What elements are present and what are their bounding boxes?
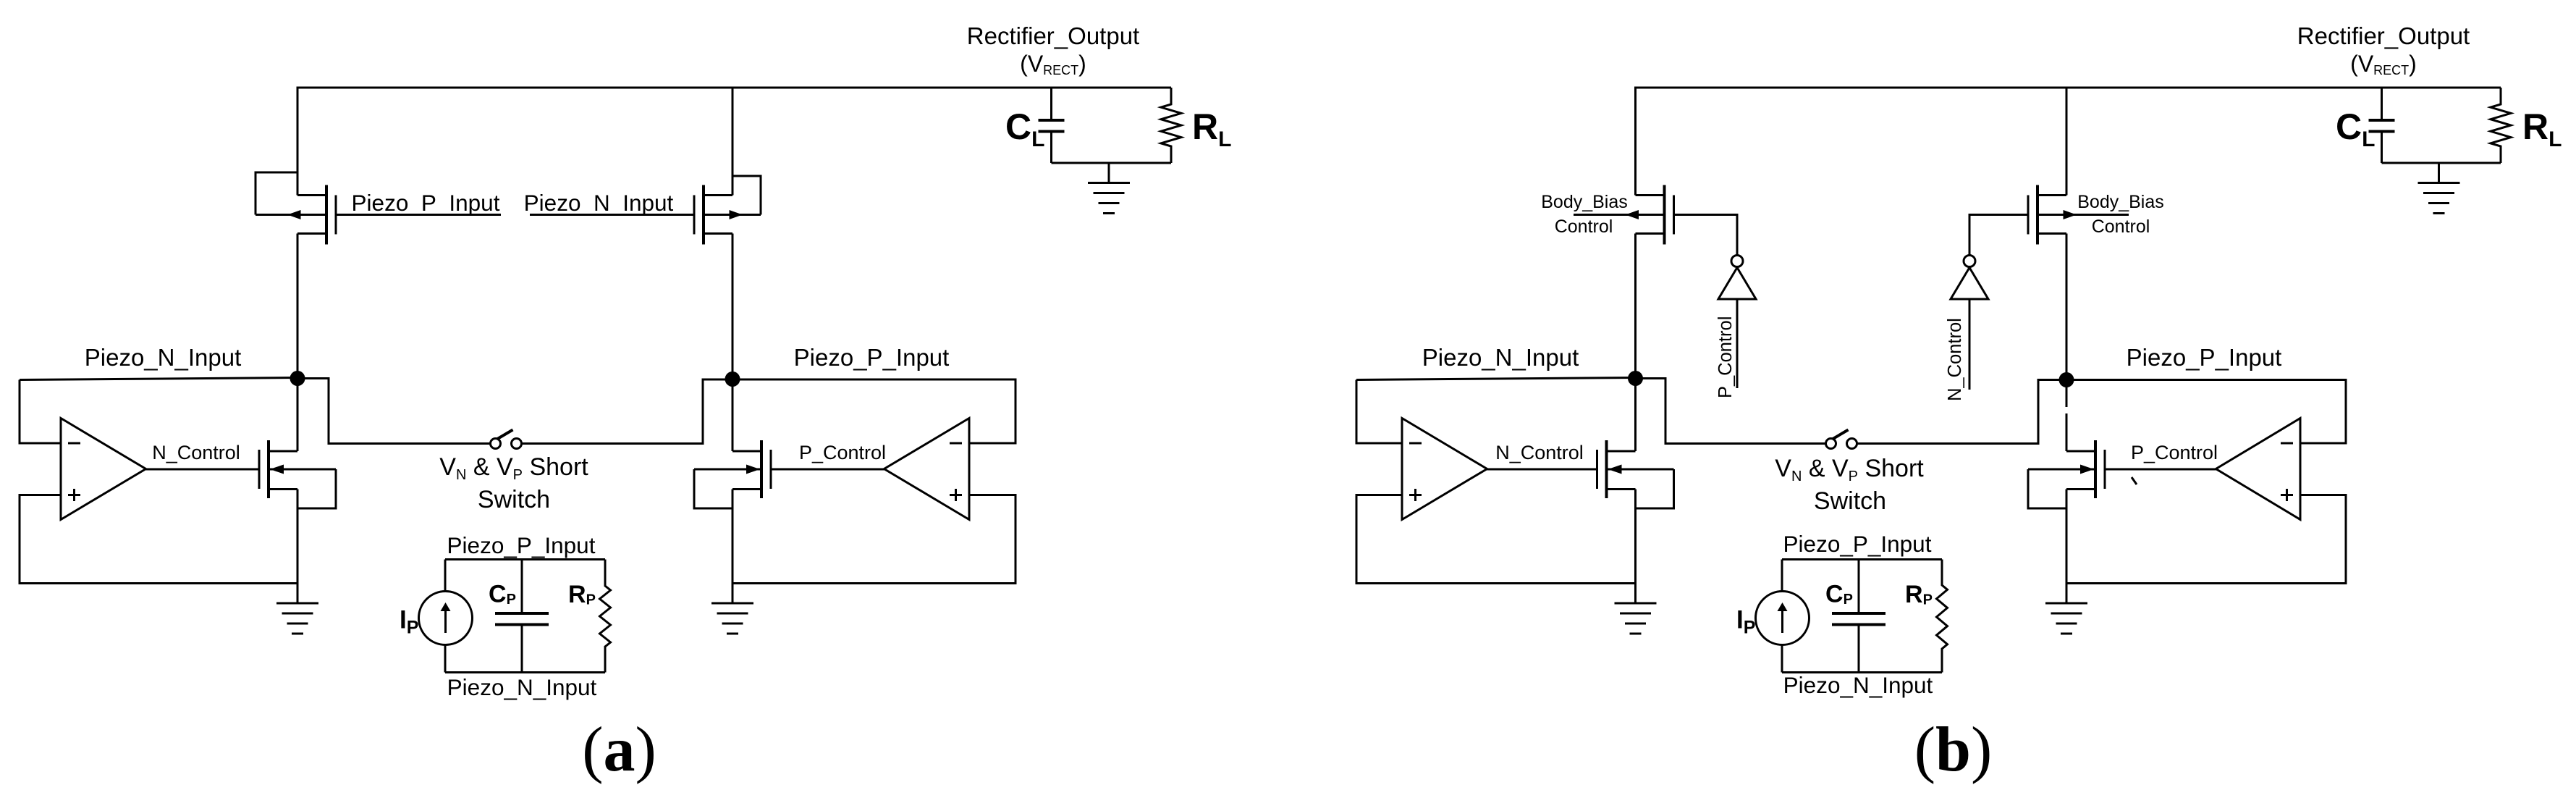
capacitor CL (a): [1039, 88, 1065, 163]
svg-text:Body_Bias: Body_Bias: [2077, 192, 2164, 212]
svg-text:N_Control: N_Control: [1495, 442, 1584, 463]
wire U3 inverting input wire (b): [1356, 380, 1402, 444]
op-amp comparator U3 (b): [1402, 419, 1487, 520]
svg-text:P_Control: P_Control: [2131, 442, 2218, 463]
svg-text:Control: Control: [2092, 217, 2150, 237]
wire U3 non-inverting input loop to bottom rail (b): [1356, 495, 1636, 584]
svg-text:(b): (b): [1914, 715, 1993, 785]
current source IP (b): [1756, 592, 1809, 645]
svg-text:Body_Bias: Body_Bias: [1541, 192, 1628, 212]
svg-text:Piezo_N_Input: Piezo_N_Input: [1422, 344, 1579, 371]
wire U1 output to M3 gate (a): [146, 469, 260, 471]
capacitor CL (b): [2369, 88, 2395, 163]
svg-text:Piezo_P_Input: Piezo_P_Input: [1783, 531, 1932, 557]
wire right branch vertical M6 source to node VP (b): [2066, 234, 2068, 379]
transistor M6 (top-right PMOS body-bias) (b): [2028, 185, 2129, 245]
wire node VP vertical to M8 drain (b): [2066, 413, 2068, 451]
wire node VN to short switch SW1 (a): [297, 379, 490, 444]
wire M3 body tie loop to source (a): [297, 469, 336, 508]
stray tick mark (b): [2132, 477, 2137, 484]
wire right branch vertical M2 source to node VP (a): [732, 234, 734, 379]
current source IP (a): [419, 592, 473, 645]
op-amp comparator U2 (a): [884, 419, 970, 520]
transistor M3 (left NMOS switch) (a): [259, 440, 336, 498]
node VN junction dot (a): [290, 371, 305, 386]
switch SW2 (VN-VP short) (b): [1826, 430, 1857, 449]
transistor M5 (top-left PMOS body-bias) (b): [1574, 185, 1674, 245]
wire U4 non-inverting input loop to bottom rail (b): [2066, 495, 2346, 584]
wire IP top lead (b): [1781, 560, 1783, 592]
resistor RL (b): [2491, 88, 2511, 163]
wire left branch vertical above M1 (a): [297, 88, 299, 196]
wire node VP vertical to M4 drain (a): [732, 379, 734, 452]
node VP junction dot (a): [725, 371, 740, 387]
svg-text:Piezo_N_Input: Piezo_N_Input: [447, 674, 597, 700]
svg-text:Piezo_N_Input: Piezo_N_Input: [85, 344, 241, 371]
resistor RP (a): [600, 560, 611, 673]
capacitor CP (a): [495, 560, 549, 673]
wire M4 source vertical to bottom rail (a): [732, 490, 734, 584]
wire left branch vertical M1 source to node VN (a): [297, 234, 299, 379]
transistor M2 (top-right PMOS, diode body tie) (a): [694, 176, 761, 245]
svg-text:Control: Control: [1555, 217, 1613, 237]
wire piezo model top rail Piezo_P_Input (a): [445, 558, 605, 560]
svg-text:Piezo_P_Input: Piezo_P_Input: [352, 190, 500, 216]
svg-text:Piezo_P_Input: Piezo_P_Input: [447, 532, 596, 558]
op-amp comparator U4 (b): [2216, 419, 2301, 520]
wire U3 output to M7 gate (b): [1487, 469, 1597, 471]
wire M5 gate wire to inverter X1 (b): [1674, 215, 1738, 256]
wire U2 output to M4 gate (a): [771, 469, 884, 471]
wire short switch SW1 to node VP (a): [523, 379, 733, 444]
ground at M4 source (a): [711, 584, 753, 634]
transistor M7 (left NMOS switch) (b): [1597, 440, 1674, 498]
svg-text:Piezo_N_Input: Piezo_N_Input: [1783, 672, 1933, 698]
ground at output load (b): [2418, 163, 2460, 214]
svg-text:P_Control: P_Control: [1715, 316, 1736, 398]
svg-text:Switch: Switch: [1814, 487, 1886, 515]
resistor RP (b): [1937, 560, 1948, 673]
wire M3 source vertical to bottom rail (a): [297, 490, 299, 584]
wire node VN to short switch SW2 (b): [1636, 379, 1825, 444]
wire U4 output to M8 gate (b): [2105, 469, 2216, 471]
svg-text:N_Control: N_Control: [152, 442, 240, 463]
wire V_RECT top rail (b): [1634, 87, 2501, 89]
svg-text:Switch: Switch: [478, 486, 550, 513]
ground at M3 source (a): [276, 584, 318, 634]
wire U1 inverting input wire (a): [20, 380, 61, 444]
wire IP top lead (a): [444, 560, 447, 592]
wire M6 gate wire to inverter X2 (b): [1969, 215, 2029, 256]
transistor M4 (right NMOS switch) (a): [694, 440, 771, 498]
node VP junction dot (b): [2059, 372, 2074, 387]
ground at M7 source (b): [1615, 584, 1657, 634]
wire left branch vertical above M5 (b): [1634, 88, 1637, 196]
wire Piezo_N_Input wire node VN to comparator U1 (a): [20, 378, 297, 380]
capacitor CP (b): [1832, 560, 1885, 673]
wire piezo model bottom rail Piezo_N_Input (a): [445, 671, 605, 673]
wire right branch vertical above M2 (a): [732, 88, 734, 196]
wire M2 gate wire / Piezo_N_Input underline (a): [530, 214, 694, 216]
svg-text:(a): (a): [582, 715, 656, 785]
wire inverter X1 input stub (b): [1736, 299, 1739, 388]
wire short switch SW2 to node VP (b): [1858, 380, 2067, 444]
resistor RL (a): [1161, 88, 1181, 163]
wire node VP vertical upper stub (b): [2066, 380, 2068, 408]
svg-text:N_Control: N_Control: [1945, 318, 1965, 401]
ground at M8 source (b): [2045, 584, 2087, 634]
svg-text:Rectifier_Output: Rectifier_Output: [2297, 22, 2470, 49]
wire IP bottom lead (a): [444, 644, 447, 673]
wire left branch vertical M5 source to node VN (b): [1634, 234, 1637, 379]
wire Piezo_P_Input wire node VP to comparator U4 (b): [2066, 380, 2346, 444]
node VN junction dot (b): [1628, 371, 1643, 386]
wire Piezo_N_Input wire node VN to comparator U3 (b): [1356, 378, 1636, 380]
inverter X1 (P_Control) (b): [1718, 256, 1756, 300]
wire M4 body tie loop to source (a): [694, 469, 732, 508]
svg-text:Piezo_P_Input: Piezo_P_Input: [794, 344, 950, 371]
wire M7 source vertical to bottom rail (b): [1634, 490, 1637, 584]
wire piezo model bottom rail Piezo_N_Input (b): [1782, 671, 1942, 673]
wire piezo model top rail Piezo_P_Input (b): [1782, 558, 1942, 560]
svg-text:Piezo_N_Input: Piezo_N_Input: [524, 190, 674, 216]
svg-text:Piezo_P_Input: Piezo_P_Input: [2127, 344, 2282, 371]
wire M8 source vertical to bottom rail (b): [2066, 490, 2068, 584]
inverter X2 (N_Control) (b): [1951, 256, 1988, 300]
wire U2 non-inverting input loop to bottom rail (a): [732, 495, 1015, 584]
transistor M1 (top-left PMOS, diode body tie) (a): [256, 172, 336, 245]
wire CL/RL bottom rail (a): [1052, 162, 1172, 164]
wire right branch vertical above M6 (b): [2066, 88, 2068, 196]
wire CL/RL bottom rail (b): [2382, 162, 2501, 164]
wire node VN vertical to M7 drain (b): [1634, 379, 1637, 452]
switch SW1 (VN-VP short) (a): [491, 430, 522, 449]
svg-text:Rectifier_Output: Rectifier_Output: [967, 22, 1139, 49]
wire inverter X2 input stub (b): [1969, 299, 1971, 390]
wire M8 body tie loop to source (b): [2028, 469, 2066, 508]
wire U1 non-inverting input loop to bottom rail (a): [20, 495, 297, 584]
wire IP bottom lead (b): [1781, 644, 1783, 673]
svg-text:P_Control: P_Control: [799, 442, 886, 463]
wire node VN vertical to M3 drain (a): [297, 379, 299, 452]
op-amp comparator U1 (a): [61, 419, 146, 520]
wire M7 body tie loop to source (b): [1636, 469, 1674, 508]
wire Piezo_P_Input wire node VP to comparator U2 (a): [732, 379, 1015, 443]
wire V_RECT top rail (a): [297, 87, 1172, 89]
transistor M8 (right NMOS switch) (b): [2028, 440, 2105, 498]
wire M1 gate wire / Piezo_P_Input underline (a): [336, 214, 501, 216]
ground at output load (a): [1088, 163, 1130, 214]
